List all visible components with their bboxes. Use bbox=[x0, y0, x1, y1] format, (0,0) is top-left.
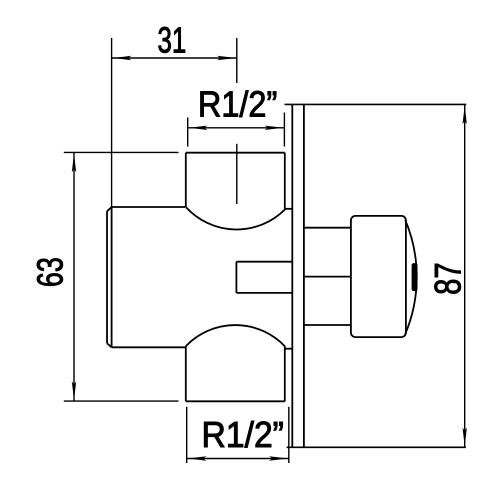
valve body: left face outer edge bbox=[106, 211, 108, 343]
dim 31: right extension line bbox=[236, 38, 238, 83]
valve body: bottom fillet arc bbox=[186, 325, 286, 347]
dim 63: bottom arrowhead bbox=[72, 381, 76, 400]
dim 63: top arrowhead bbox=[72, 153, 76, 172]
handle stem: bottom edge bbox=[304, 324, 351, 326]
handle stem: middle line bbox=[304, 276, 351, 278]
svg-text:31: 31 bbox=[158, 20, 187, 61]
valve body: top right stub to plate bbox=[285, 208, 292, 210]
svg-text:87: 87 bbox=[427, 262, 468, 295]
dim 31: dimension line bbox=[112, 57, 237, 59]
handle stem: top edge bbox=[304, 227, 351, 229]
outlet spigot: bottom edge bbox=[236, 292, 292, 294]
valve body: top edge bbox=[112, 206, 185, 208]
svg-text:63: 63 bbox=[30, 257, 71, 287]
dim 63: top extension line bbox=[64, 151, 179, 153]
dim 87: dimension line bbox=[464, 105, 466, 447]
dim 31: left arrowhead bbox=[112, 56, 131, 60]
wall plate: right edge bbox=[303, 104, 305, 447]
valve body: top fillet arc bbox=[186, 207, 286, 229]
dim 63: bottom extension line bbox=[64, 400, 179, 402]
dim R1/2 top: right arrowhead bbox=[265, 126, 284, 130]
wall plate: left edge bbox=[291, 104, 293, 447]
dim R1/2 bottom: right arrowhead bbox=[269, 456, 288, 460]
svg-text:R1/2”: R1/2” bbox=[202, 414, 284, 455]
dim 31: right arrowhead bbox=[217, 56, 236, 60]
dim R1/2 top: left arrowhead bbox=[189, 126, 208, 130]
dim R1/2 bottom: right extension line bbox=[288, 407, 290, 463]
dim 87: top arrowhead bbox=[463, 105, 467, 124]
port centerline (top port axis) bbox=[236, 144, 238, 204]
valve body: left chamfer top diagonal bbox=[107, 207, 112, 211]
valve body: bottom right stub to plate bbox=[285, 348, 292, 350]
valve body: left chamfer inner edge bbox=[111, 207, 113, 348]
dim 87: top extension line / plate top edge bbox=[285, 103, 467, 105]
svg-text:R1/2”: R1/2” bbox=[198, 83, 277, 124]
valve body: top port left edge bbox=[185, 153, 187, 207]
dim 87: bottom arrowhead bbox=[463, 428, 467, 447]
knob body (rounded rectangle) bbox=[351, 216, 406, 337]
valve body: top port top edge bbox=[186, 152, 285, 154]
dim R1/2 bottom: left arrowhead bbox=[188, 456, 207, 460]
outlet spigot: left edge bbox=[235, 262, 237, 293]
dim 31: left extension line bbox=[111, 38, 113, 207]
dim R1/2 top: dimension line bbox=[188, 127, 285, 129]
dim 87: bottom extension line / plate bottom edge bbox=[287, 446, 466, 448]
dim R1/2 bottom: dimension line bbox=[187, 458, 289, 460]
dim R1/2 bottom: left extension line bbox=[186, 407, 188, 463]
outlet spigot: top edge bbox=[236, 261, 292, 263]
valve body: top port right edge bbox=[284, 153, 286, 209]
dim R1/2 top: left extension line bbox=[187, 118, 189, 147]
valve body: bottom edge bbox=[112, 346, 185, 348]
valve body: left chamfer bottom diagonal bbox=[107, 343, 112, 347]
valve body: bottom port left edge bbox=[185, 346, 187, 401]
knob index button (black bar) bbox=[412, 263, 418, 291]
valve body: bottom port right edge bbox=[284, 347, 286, 401]
valve body: bottom port bottom edge bbox=[186, 400, 285, 402]
dim 63: dimension line bbox=[73, 153, 75, 401]
dim R1/2 top: right extension line bbox=[283, 113, 285, 147]
knob dome silhouette arc bbox=[405, 220, 417, 334]
